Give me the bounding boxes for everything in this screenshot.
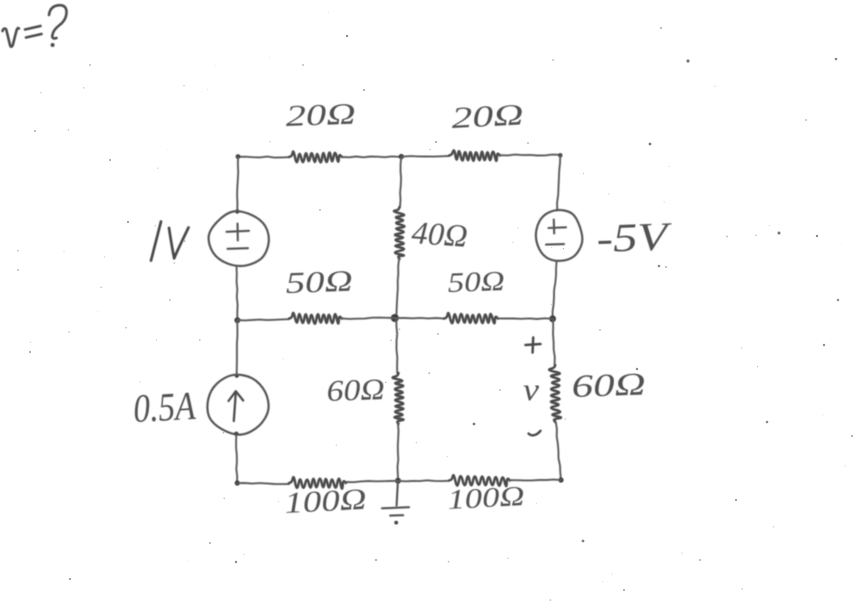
resistor R1 20ohm top-left: [285, 98, 356, 163]
wire R1 to node B: [342, 155, 399, 158]
wire R4 to node D: [342, 318, 395, 319]
wire R2 to top-right corner: [500, 153, 563, 157]
voltage source V1 1V: [209, 211, 269, 266]
resistor R8 100ohm bottom-left: [284, 477, 368, 520]
wire node E to R9: [398, 480, 449, 481]
resistor R3 40ohm middle vertical: [394, 207, 469, 259]
svg-text:100Ω: 100Ω: [447, 481, 526, 516]
resistor R9 100ohm bottom-right: [447, 475, 526, 516]
svg-text:-5V: -5V: [596, 213, 674, 261]
wire R6 to node E (bottom middle): [398, 424, 399, 481]
wire node D down to R6: [395, 318, 398, 373]
svg-text:20Ω: 20Ω: [285, 98, 356, 133]
resistor R4 50ohm mid-left: [285, 265, 353, 324]
label v voltage: [523, 371, 540, 407]
wire R3 to node D (center): [396, 259, 399, 318]
label - polarity mark: [529, 431, 541, 436]
label 0.5A: [132, 383, 197, 431]
svg-text:100Ω: 100Ω: [284, 483, 368, 520]
svg-text:50Ω: 50Ω: [285, 265, 353, 300]
wire bottom-left corner to R8: [237, 483, 289, 484]
node D center junction: [391, 314, 399, 322]
ground symbol: [382, 483, 409, 524]
wire node B to R2: [403, 155, 449, 158]
wire R5 to node F: [498, 317, 553, 320]
wire node A down to V1: [235, 157, 239, 214]
wire I1 to bottom-left corner: [234, 432, 240, 486]
voltage source V2 -5V: [536, 210, 582, 261]
svg-text:40Ω: 40Ω: [411, 214, 469, 254]
wire R7 to bottom-right corner: [556, 422, 564, 483]
svg-text:60Ω: 60Ω: [571, 365, 646, 404]
svg-text:20Ω: 20Ω: [451, 98, 525, 135]
svg-text:60Ω: 60Ω: [326, 373, 385, 408]
resistor R6 60ohm middle vertical: [326, 373, 403, 424]
node F junction mid-right: [549, 315, 556, 322]
wire node D to R5: [397, 317, 444, 320]
svg-text:v: v: [523, 371, 540, 407]
current source I1 0.5A: [207, 375, 268, 435]
wire node C down to I1: [235, 320, 239, 378]
label 1V: [151, 222, 189, 261]
resistor R7 60ohm right vertical: [549, 365, 646, 422]
node E bottom middle junction: [395, 478, 401, 484]
wire R8 to node E: [346, 481, 398, 482]
wire node C to R4: [237, 319, 289, 320]
wire node F down to R7: [553, 319, 555, 365]
node C junction mid-left: [234, 317, 240, 323]
wire R9 to bottom-right corner: [510, 479, 561, 482]
wire V2 to node F (mid-right): [553, 262, 557, 319]
wire top-left (node A to R1): [238, 157, 289, 158]
node A top-left corner: [236, 154, 241, 159]
wire node B down to R3: [400, 157, 401, 207]
svg-text:0.5A: 0.5A: [132, 383, 197, 431]
label -5V: [596, 213, 674, 261]
resistor R5 50ohm mid-right: [444, 266, 505, 323]
wire top-right corner down to V2: [557, 155, 560, 210]
svg-text:50Ω: 50Ω: [447, 266, 505, 299]
label + polarity mark: [526, 338, 541, 353]
resistor R2 20ohm top-right: [449, 98, 524, 161]
wire V1 to node C (mid-left): [237, 267, 238, 321]
node B junction (top middle): [399, 154, 404, 159]
node label v=? annotation: [3, 5, 67, 47]
